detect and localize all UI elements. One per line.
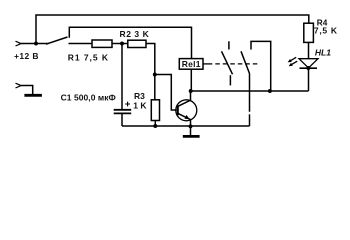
wire: input to switch: [21, 43, 49, 45]
wire: Rel1 coil to collector node: [190, 69, 192, 91]
connector X2: minus input chevron: [16, 83, 22, 88]
transistor body circle: [176, 100, 197, 121]
node G: contact K1.2 junction dot: [268, 89, 272, 93]
capacitor C1: polarity plus sign: [125, 102, 130, 107]
node F: collector junction dot: [189, 89, 193, 93]
node H: LED cathode junction dot: [306, 66, 310, 70]
relay contact K1.2: upper corner lead to wire: [251, 41, 271, 91]
wire: second rail from switch stub to Rel1 coil: [69, 27, 191, 58]
node A: input junction dot: [34, 42, 38, 46]
relay contact K1.2: lower lead with break: [249, 74, 251, 127]
svg-text:1 K: 1 K: [133, 100, 147, 110]
wire: top +12V rail with left drop and right drop to R4: [36, 15, 309, 44]
LED emission arrow 2: [292, 61, 298, 64]
relay contact K1.1: upper stub: [228, 41, 230, 49]
wire: LED to collector wire: [308, 68, 310, 91]
switch SA1: open arm: [46, 37, 68, 44]
svg-text:R2 3 K: R2 3 K: [120, 29, 150, 39]
relay contact K1.1: lower stub: [229, 75, 231, 85]
resistor R2: [128, 40, 146, 47]
wire: switch to R1: [69, 43, 93, 45]
mechanical link: dashed line from Rel1 to contacts: [203, 63, 212, 65]
LED triangle: [299, 59, 318, 68]
svg-text:7,5 K: 7,5 K: [314, 26, 338, 36]
node E: emitter/rail junction dot: [189, 124, 193, 128]
node D: R3/rail junction dot: [153, 124, 157, 128]
wire: collector node to LED branch: [191, 90, 309, 92]
node C: base branch junction dot: [153, 73, 157, 77]
wire: R1 to R2: [112, 43, 128, 45]
svg-text:HL1: HL1: [315, 47, 331, 57]
resistor R3: [151, 100, 159, 121]
relay contact K1.2: arm: [241, 51, 250, 73]
connector X1: +12V input chevron: [16, 41, 22, 46]
transistor collector lead: [178, 91, 190, 106]
wire: R2 down to R3: [146, 44, 155, 100]
transistor base bar: [177, 105, 179, 115]
resistor R4: [304, 23, 314, 42]
svg-text:+12 В: +12 В: [14, 51, 39, 61]
ground: input ground bar: [24, 94, 42, 97]
wire: R3 to bottom rail: [154, 121, 156, 127]
capacitor C1: plates: [114, 110, 132, 114]
capacitor C1: top lead: [121, 44, 123, 110]
svg-text:C1 500,0 мкФ: C1 500,0 мкФ: [61, 93, 116, 103]
transistor emitter arrowhead: [185, 115, 190, 119]
transistor VT1: [176, 91, 197, 136]
LED emission arrow 1: [291, 57, 297, 60]
wire: R4 to LED: [308, 42, 310, 58]
transistor emitter lead: [178, 114, 190, 136]
wire: branch to transistor base: [155, 75, 177, 111]
wire: minus input lead: [21, 86, 33, 95]
capacitor C1: bottom lead: [121, 113, 123, 126]
LED cathode bar: [300, 67, 318, 69]
relay coil Rel1: box: [179, 59, 203, 70]
ground: emitter ground bar: [183, 135, 200, 138]
relay contact K1.1: arm: [222, 51, 233, 74]
resistor R1: [92, 40, 112, 47]
svg-text:R1 7,5 K: R1 7,5 K: [68, 53, 109, 63]
svg-text:Rel1: Rel1: [182, 59, 201, 69]
wire: bottom rail: [122, 125, 250, 127]
LED HL1: [288, 57, 318, 68]
node B: R1/R2/C1 junction dot: [120, 42, 124, 46]
